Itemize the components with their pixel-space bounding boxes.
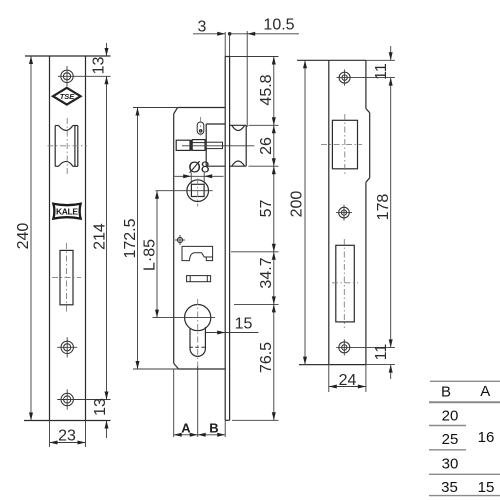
svg-text:15: 15 xyxy=(478,479,495,496)
euro cylinder hole xyxy=(185,305,211,331)
svg-text:11: 11 xyxy=(373,344,390,361)
dimension L85 xyxy=(153,317,216,319)
strike middle screw hole xyxy=(339,207,350,218)
lower slot xyxy=(187,276,211,282)
svg-text:214: 214 xyxy=(92,223,109,250)
dimension 26 xyxy=(249,165,279,167)
dimension 15 xyxy=(206,332,259,334)
svg-text:B: B xyxy=(209,421,218,436)
dimension 23 xyxy=(49,421,51,448)
svg-text:24: 24 xyxy=(339,372,357,389)
dimension 57 xyxy=(231,251,279,253)
latch centerline xyxy=(182,145,254,147)
strike top screw hole xyxy=(339,72,350,83)
svg-text:16: 16 xyxy=(478,429,495,446)
svg-text:11: 11 xyxy=(373,63,390,80)
svg-text:20: 20 xyxy=(442,408,459,425)
svg-text:35: 35 xyxy=(441,479,458,496)
roller housing box xyxy=(205,124,207,166)
TSE logo xyxy=(53,88,81,105)
bottom screw hole xyxy=(61,393,73,405)
svg-text:L·85: L·85 xyxy=(142,239,159,271)
spindle hole xyxy=(187,180,209,202)
dimension 34.7 xyxy=(234,303,279,305)
dimension 200 xyxy=(299,364,331,366)
cylinder opening xyxy=(336,245,355,322)
svg-text:15: 15 xyxy=(235,316,253,333)
table lines xyxy=(430,380,500,382)
strike plate outline xyxy=(297,59,366,61)
latch bolt body xyxy=(176,140,190,150)
top screw hole xyxy=(61,70,73,82)
roller side view xyxy=(230,124,247,126)
middle screw hole xyxy=(61,341,73,353)
dimension 11 top xyxy=(390,46,392,60)
svg-text:34.7: 34.7 xyxy=(258,257,275,288)
dimension 13 bottom xyxy=(106,421,108,439)
lock case body xyxy=(178,107,226,109)
svg-text:3: 3 xyxy=(198,19,207,36)
KALE logo xyxy=(53,204,80,219)
dimension 172.5 xyxy=(133,107,178,109)
svg-text:10.5: 10.5 xyxy=(263,17,294,34)
svg-text:TSE: TSE xyxy=(60,92,76,101)
svg-text:A: A xyxy=(480,383,490,400)
roller latch front view xyxy=(48,118,88,174)
dimension 76.5 xyxy=(232,419,279,421)
latch bolt stem xyxy=(205,142,223,148)
svg-text:B: B xyxy=(441,384,451,401)
dimension 24 xyxy=(328,365,330,392)
dimension 214 xyxy=(106,76,108,399)
dimension A B xyxy=(173,369,175,437)
strike bottom screw hole xyxy=(339,342,350,353)
svg-text:KALE: KALE xyxy=(56,207,78,217)
svg-text:76.5: 76.5 xyxy=(258,342,275,373)
svg-text:25: 25 xyxy=(442,431,459,448)
svg-text:30: 30 xyxy=(442,455,459,472)
dimension 178 xyxy=(390,78,392,348)
svg-text:240: 240 xyxy=(15,223,32,250)
svg-text:200: 200 xyxy=(289,191,306,218)
small cross screw xyxy=(177,237,182,242)
svg-text:178: 178 xyxy=(375,194,392,221)
svg-text:45.8: 45.8 xyxy=(258,74,275,105)
dimension 45.8 xyxy=(230,56,279,58)
dimension 13 top xyxy=(106,43,108,56)
cam cutout xyxy=(182,246,213,260)
svg-text:13: 13 xyxy=(91,57,108,75)
dimension 11 bottom xyxy=(390,365,392,379)
svg-text:23: 23 xyxy=(58,428,76,445)
svg-text:13: 13 xyxy=(92,398,109,416)
svg-text:26: 26 xyxy=(258,137,275,155)
faceplate front view outline xyxy=(25,55,111,57)
svg-text:A: A xyxy=(181,421,191,436)
slot xyxy=(60,250,73,304)
latch opening xyxy=(332,120,357,169)
dimension 240 xyxy=(30,56,32,421)
svg-text:57: 57 xyxy=(258,200,275,218)
guide pin capsule xyxy=(197,122,204,134)
faceplate strip side view xyxy=(224,57,226,421)
svg-text:172.5: 172.5 xyxy=(122,218,139,258)
